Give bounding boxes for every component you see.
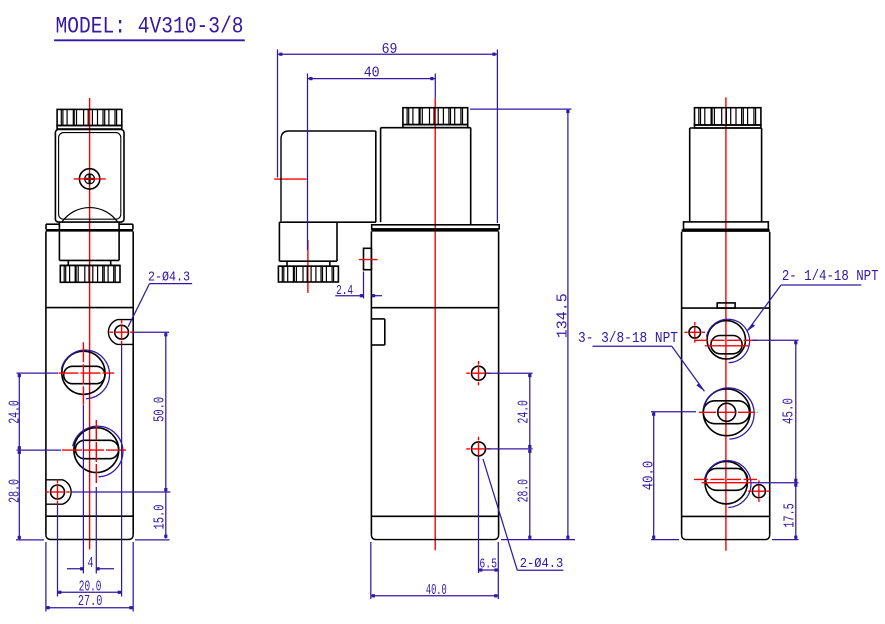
front dim 15.0 [71, 492, 170, 540]
front dim 20.0 [58, 345, 122, 597]
dim 2.4 [335, 272, 382, 300]
end port 2 center mark (red) [699, 411, 758, 413]
svg-text:28.0: 28.0 [516, 479, 533, 502]
svg-text:17.5: 17.5 [782, 503, 799, 528]
side hole lower center mark (red) [466, 437, 490, 461]
front port B (lower) circle [74, 428, 119, 473]
side coil body [381, 128, 471, 225]
svg-text:6.5: 6.5 [479, 556, 497, 572]
front dim 28.0 [7, 450, 62, 540]
svg-text:40.0: 40.0 [426, 582, 447, 599]
side screw axis (red) [274, 178, 307, 180]
end port 2 thread arc (blue) [704, 388, 755, 439]
side body top edge (thick) [371, 229, 498, 232]
side cable gland body [279, 222, 337, 261]
side hole upper [472, 366, 486, 380]
svg-text:15.0: 15.0 [152, 505, 169, 530]
front retaining nut knurled [60, 265, 120, 282]
front valve body outline [46, 232, 133, 540]
front screw [79, 169, 99, 189]
end valve body outline [682, 232, 770, 540]
front housing dome arc [62, 208, 118, 222]
side hole upper center mark (red) [466, 361, 490, 385]
end port 1 thread arc (blue) [707, 319, 750, 363]
end coil body [690, 128, 762, 222]
end port 3 slot [706, 468, 748, 490]
front port B center mark (red) [62, 420, 127, 483]
front port B slot [75, 440, 118, 458]
front port A (upper) circle [62, 351, 105, 394]
end port 3 thread arc (blue) [705, 461, 751, 508]
dim 45.0 [751, 340, 799, 482]
svg-text:2.4: 2.4 [336, 283, 353, 299]
end hole bottom-right center mark (red) [748, 480, 770, 502]
label 3- 3/8-18 NPT with leader [578, 330, 704, 391]
end view centerline (red) [725, 97, 727, 550]
front coil cap knurled [57, 109, 122, 129]
end port 3 (3/8 NPT bottom) circle [705, 462, 747, 504]
svg-text:40.0: 40.0 [641, 461, 658, 491]
side valve body outline [371, 232, 498, 540]
end hole bottom-right [752, 485, 765, 498]
side coil flange [372, 225, 500, 229]
svg-text:40: 40 [364, 65, 380, 82]
dim 6.5 [479, 457, 499, 600]
svg-text:MODEL: 4V310-3/8: MODEL: 4V310-3/8 [56, 14, 244, 40]
label 2- 1/4-18 NPT with leader [747, 268, 879, 332]
front hole bottom-left center mark (red) [45, 480, 69, 504]
front dim 50.0 [134, 332, 170, 492]
svg-text:134.5: 134.5 [555, 293, 572, 338]
dim 40.0 side [371, 542, 499, 599]
front label 2-Ø4.3 with leader [128, 270, 192, 327]
side connector housing [279, 128, 380, 223]
svg-text:50.0: 50.0 [152, 397, 169, 422]
end port 3 center marks (red) [694, 479, 757, 482]
front port A slot [64, 366, 105, 383]
side coil cap knurled [403, 108, 468, 128]
front dim 4 [67, 405, 114, 574]
svg-text:2-Ø4.3: 2-Ø4.3 [520, 556, 563, 572]
side manual override tab [364, 248, 372, 269]
dim 134.5 [470, 109, 572, 539]
dim 17.5 [772, 483, 799, 540]
side pilot exhaust block [371, 319, 385, 345]
dim 24.0 side [486, 373, 533, 449]
front plug neck [60, 260, 120, 265]
end coil flange [684, 222, 769, 229]
front mounting hole bottom-left [46, 480, 71, 504]
dim 40.0 end [641, 412, 697, 540]
svg-text:27.0: 27.0 [78, 593, 102, 610]
svg-text:24.0: 24.0 [516, 400, 533, 423]
front dim 24.0 [7, 373, 59, 450]
end coil cap knurled [695, 108, 761, 128]
front coil top edge (thick) [46, 229, 133, 232]
front dim 27.0 [46, 542, 133, 612]
svg-text:69: 69 [382, 41, 398, 58]
end body top edge (thick) [682, 229, 770, 232]
title text MODEL: 4V310-3/8 [54, 14, 245, 41]
front mounting hole top-right [108, 320, 133, 345]
end hole top-left center mark (red) [685, 322, 706, 343]
front view centerline (red) [89, 98, 91, 550]
side tab center mark (red) [359, 259, 378, 261]
end port 2 (3/8 NPT middle) circle [703, 389, 750, 436]
front port A thread arc (blue) [61, 350, 109, 399]
end port 2 inner circle [718, 403, 736, 421]
svg-text:4: 4 [88, 555, 94, 572]
side gland neck [278, 261, 338, 266]
end port 1 slot [711, 336, 742, 354]
svg-text:3- 3/8-18 NPT: 3- 3/8-18 NPT [578, 330, 678, 347]
dim 40 [308, 65, 436, 251]
side gland knurled nut [278, 266, 338, 282]
svg-text:45.0: 45.0 [781, 398, 798, 424]
svg-text:28.0: 28.0 [7, 479, 24, 503]
svg-text:2- 1/4-18 NPT: 2- 1/4-18 NPT [782, 268, 879, 285]
front coil flange tabs [46, 222, 133, 229]
side label 2-Ø4.3 with leader [483, 459, 563, 572]
end port 1 center marks (red) [694, 340, 757, 346]
front hole top-right center mark (red) [109, 320, 133, 344]
side hole lower [472, 442, 486, 456]
side view coil centerline (red) [434, 98, 436, 550]
svg-text:24.0: 24.0 [7, 400, 24, 424]
side gland centerline (red) [307, 240, 309, 293]
end manual override tab [717, 303, 735, 308]
front connector plug block [59, 229, 119, 260]
end hole top-left [689, 327, 701, 339]
front screw center mark (red) [74, 178, 106, 180]
front connector housing [55, 130, 124, 223]
dim 28.0 side [501, 449, 575, 540]
dim 69 [278, 41, 498, 223]
end port 2 slot [703, 401, 749, 424]
end port 1 (1/4 NPT top) circle [707, 321, 745, 359]
front port A center mark (red) [59, 342, 115, 405]
front port B thread arc (blue) [73, 426, 123, 477]
